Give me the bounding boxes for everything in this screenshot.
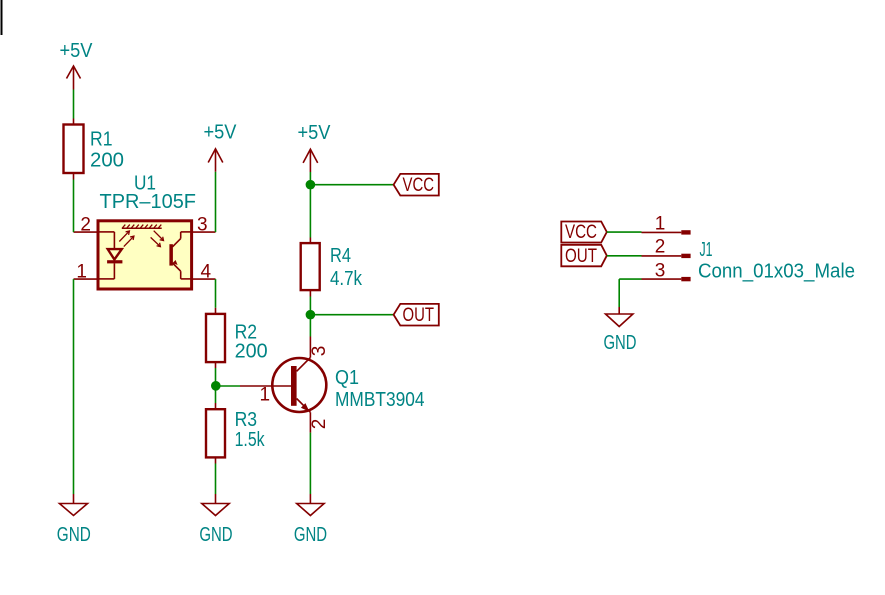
svg-text:R4: R4 <box>330 245 351 267</box>
svg-text:GND: GND <box>294 524 327 546</box>
svg-text:VCC: VCC <box>403 175 435 196</box>
svg-text:J1: J1 <box>700 239 713 261</box>
svg-text:OUT: OUT <box>565 246 597 267</box>
svg-text:2: 2 <box>655 237 666 258</box>
svg-text:GND: GND <box>199 524 232 546</box>
svg-text:2: 2 <box>80 215 91 236</box>
svg-text:1: 1 <box>260 385 271 406</box>
svg-text:OUT: OUT <box>403 305 435 326</box>
svg-text:+5V: +5V <box>60 40 94 62</box>
svg-text:TPR–105F: TPR–105F <box>100 191 197 213</box>
svg-text:R3: R3 <box>235 409 258 431</box>
svg-text:R1: R1 <box>90 129 113 151</box>
svg-text:MMBT3904: MMBT3904 <box>335 389 425 411</box>
svg-text:VCC: VCC <box>565 222 597 243</box>
svg-text:1: 1 <box>76 262 87 283</box>
svg-text:1.5k: 1.5k <box>235 429 266 451</box>
svg-text:Q1: Q1 <box>335 367 359 389</box>
svg-text:Conn_01x03_Male: Conn_01x03_Male <box>698 261 855 283</box>
svg-text:3: 3 <box>309 346 330 357</box>
svg-text:1: 1 <box>655 214 666 235</box>
svg-text:3: 3 <box>655 261 666 282</box>
svg-text:4.7k: 4.7k <box>330 268 363 290</box>
svg-text:2: 2 <box>309 419 330 430</box>
svg-text:200: 200 <box>235 341 268 363</box>
svg-text:+5V: +5V <box>298 122 332 144</box>
svg-text:200: 200 <box>90 150 124 172</box>
svg-text:GND: GND <box>57 524 91 546</box>
svg-text:GND: GND <box>604 332 637 354</box>
svg-text:+5V: +5V <box>204 122 238 144</box>
